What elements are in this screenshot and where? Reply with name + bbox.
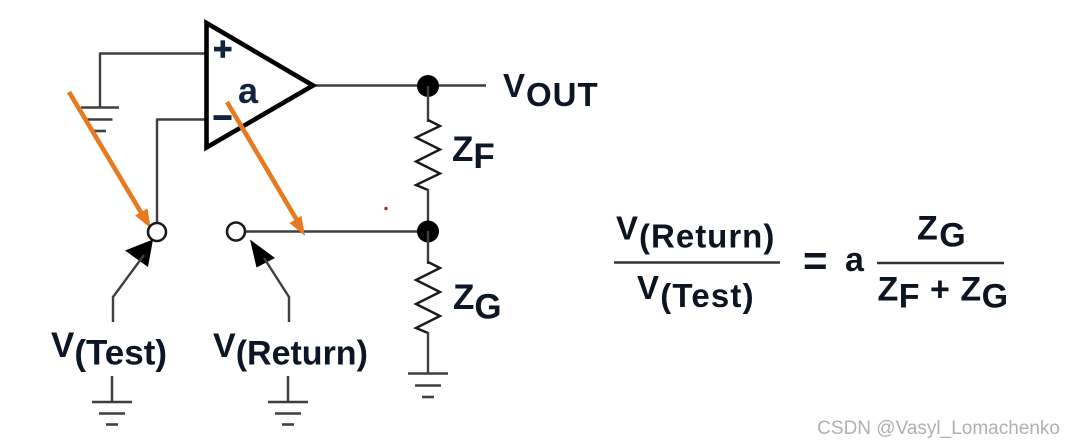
svg-text:ZG: ZG xyxy=(917,210,967,255)
svg-text:ZG: ZG xyxy=(453,278,502,327)
wire: ZG to ground xyxy=(427,332,429,373)
wire: V(Test) lead to ground xyxy=(111,376,113,402)
node: return sense open circle xyxy=(227,223,245,241)
svg-text:ZF: ZF xyxy=(452,130,495,176)
svg-text:a: a xyxy=(845,241,865,279)
op-amp plus input symbol xyxy=(214,40,232,58)
wire: return node down to ZG xyxy=(427,231,429,264)
resistor ZG xyxy=(416,262,440,333)
ground GND3 (V(Test)) xyxy=(92,402,132,425)
orange injection arrow 2 (to return node) xyxy=(227,102,305,236)
V(Return) source arrow (black arrowhead + lead) xyxy=(250,240,289,323)
node return junction dot xyxy=(417,221,439,243)
wire: V(Return) lead to ground xyxy=(287,376,289,402)
wire: VOUT node down to ZF xyxy=(427,86,429,122)
ground GND1 (at non-inverting input) xyxy=(81,108,119,132)
wire: inverting input vertical to test node xyxy=(156,119,158,223)
orange injection arrow 1 (to test node) xyxy=(69,92,151,228)
equation: fraction bar left xyxy=(614,261,780,264)
wire: inverting input horizontal xyxy=(157,118,206,120)
stray red dot artifact xyxy=(384,207,387,210)
ground GND4 (V(Return)) xyxy=(268,402,308,425)
node VOUT junction dot xyxy=(417,75,439,97)
wire: ZF to return node xyxy=(427,189,429,231)
node: test injection open circle xyxy=(148,223,166,241)
svg-text:a: a xyxy=(238,70,259,111)
ground GND2 (below ZG) xyxy=(408,374,448,398)
op-amp minus input symbol xyxy=(214,115,232,120)
svg-text:CSDN @Vasyl_Lomachenko: CSDN @Vasyl_Lomachenko xyxy=(817,418,1060,439)
svg-text:V(Return): V(Return) xyxy=(213,327,368,373)
svg-text:=: = xyxy=(803,237,828,284)
svg-text:V(Test): V(Test) xyxy=(51,326,167,373)
resistor ZF xyxy=(416,120,440,190)
svg-text:V(Return): V(Return) xyxy=(616,210,775,255)
wire: vertical drop to ground GND1 xyxy=(99,53,101,108)
wire: op-amp output to VOUT node xyxy=(313,84,486,86)
svg-text:ZF + ZG: ZF + ZG xyxy=(878,271,1009,316)
wire: return node to ZF/ZG junction xyxy=(246,230,428,232)
wire: non-inverting input horizontal xyxy=(100,52,206,54)
equation: fraction bar right xyxy=(877,262,1004,265)
op-amp U1 (gain a) xyxy=(207,23,314,148)
svg-text:V(Test): V(Test) xyxy=(637,269,755,314)
V(Test) source arrow (black arrowhead + lead) xyxy=(113,240,153,323)
svg-text:VOUT: VOUT xyxy=(503,67,599,113)
